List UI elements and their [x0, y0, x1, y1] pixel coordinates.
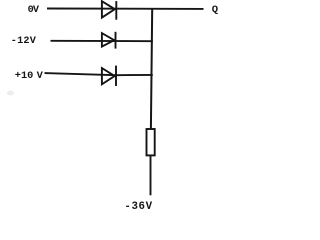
wire W2 (-12V input rail) [51, 40, 153, 42]
wire to -36V [150, 156, 152, 196]
resistor R1 [147, 129, 155, 155]
svg-text:0V: 0V [28, 5, 40, 16]
svg-text:Q: Q [212, 4, 218, 16]
wire W1 (0V input rail to output Q) [47, 8, 204, 10]
wire bus vertical (common cathode node) [151, 9, 152, 129]
wire W3 (+10V input rail) [45, 73, 153, 75]
svg-text:+10: +10 [15, 70, 34, 82]
diode D1 [102, 1, 116, 20]
diode D2 [102, 32, 116, 49]
scan smudge (decorative omitted from labels) [7, 91, 14, 96]
svg-text:V: V [37, 70, 44, 82]
svg-text:-36V: -36V [124, 201, 152, 213]
svg-text:-12V: -12V [11, 36, 37, 47]
diode D3 [102, 66, 116, 86]
